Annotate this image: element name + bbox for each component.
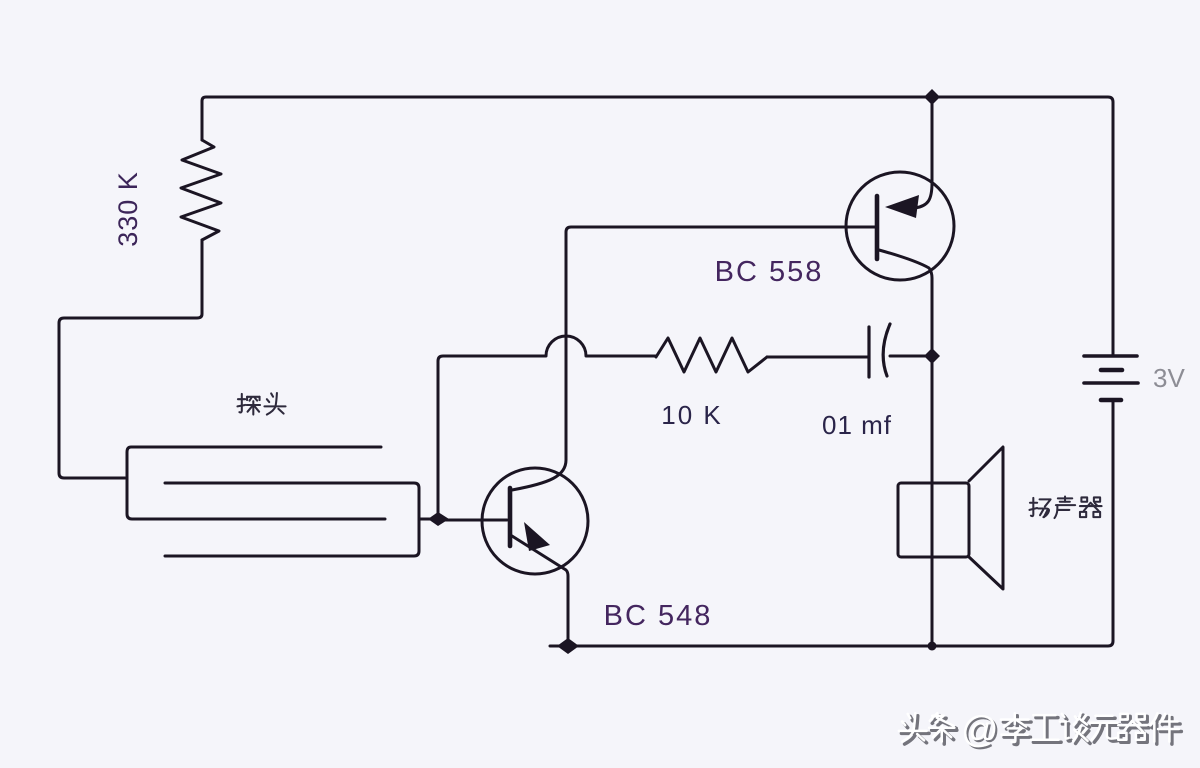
svg-text:@: @ — [961, 709, 999, 750]
svg-text:BC 558: BC 558 — [715, 256, 824, 288]
svg-text:10 K: 10 K — [661, 400, 723, 430]
svg-text:01 mf: 01 mf — [822, 410, 892, 440]
svg-text:330 K: 330 K — [113, 171, 143, 247]
svg-text:BC 548: BC 548 — [604, 600, 713, 632]
svg-text:3V: 3V — [1153, 363, 1185, 393]
